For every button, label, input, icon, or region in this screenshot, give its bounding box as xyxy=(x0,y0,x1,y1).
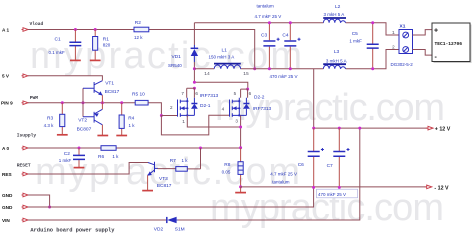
svg-text:C3: C3 xyxy=(261,33,267,39)
junction C1 top xyxy=(74,28,77,31)
svg-text:150 mkH 3 A: 150 mkH 3 A xyxy=(209,55,235,60)
junction C4 bottom xyxy=(289,67,292,70)
wire bases vertical xyxy=(82,88,84,117)
svg-text:RES: RES xyxy=(2,172,12,177)
capacitor C1 xyxy=(49,30,82,60)
svg-text:VT3: VT3 xyxy=(159,176,168,182)
svg-text:2: 2 xyxy=(392,45,395,51)
svg-text:5: 5 xyxy=(234,91,237,97)
resistor R7 1k xyxy=(170,148,201,171)
svg-text:R8: R8 xyxy=(224,162,230,168)
resistor R2 xyxy=(134,20,149,40)
svg-text:BC807: BC807 xyxy=(77,126,92,132)
junction D2-1 pins top xyxy=(193,87,196,90)
capacitor C5 1 mkF xyxy=(349,23,378,69)
ground R3 xyxy=(57,134,68,136)
svg-text:C6: C6 xyxy=(298,162,304,168)
junction C3 bottom xyxy=(268,67,271,70)
svg-text:PIN 9: PIN 9 xyxy=(1,101,13,106)
svg-text:Isupply: Isupply xyxy=(17,133,37,139)
svg-text:12 k: 12 k xyxy=(134,35,143,40)
port VIN xyxy=(2,218,28,223)
svg-text:VIN: VIN xyxy=(2,218,10,223)
svg-text:tantalum: tantalum xyxy=(272,179,290,184)
junction emitters xyxy=(101,101,104,104)
svg-text:6: 6 xyxy=(195,91,198,97)
wire top rail VD1 to L2 xyxy=(194,22,323,24)
wire +12V rail xyxy=(314,69,427,128)
svg-text:R3: R3 xyxy=(47,116,53,122)
svg-text:470 mkF 25 V: 470 mkF 25 V xyxy=(270,74,298,79)
wire D2-2 pin jog xyxy=(241,89,248,98)
junction Vload bottom rail xyxy=(253,67,256,70)
svg-text:3 mkH 5 A: 3 mkH 5 A xyxy=(326,59,347,64)
svg-text:1: 1 xyxy=(182,119,185,125)
capacitor C3 xyxy=(261,23,280,69)
junction R1 top xyxy=(94,28,97,31)
mosfet D2-2 IRF7313 xyxy=(230,95,272,117)
transistor VT1 BC817 xyxy=(83,80,120,102)
wire RESET to VT3 collector xyxy=(28,163,148,175)
wire bottom rail L3 to X1 pin2 xyxy=(346,50,399,69)
svg-text:TEC1-12706: TEC1-12706 xyxy=(435,41,463,47)
svg-text:4: 4 xyxy=(222,107,225,113)
junction drain feed xyxy=(193,81,196,84)
svg-text:SR540: SR540 xyxy=(168,63,182,68)
svg-text:Vload: Vload xyxy=(30,21,44,27)
svg-text:R2: R2 xyxy=(135,20,141,26)
svg-text:L3: L3 xyxy=(334,49,340,55)
svg-text:PWM: PWM xyxy=(30,95,39,101)
wire X1 pin1 to TEC xyxy=(413,30,433,35)
svg-text:D2-2: D2-2 xyxy=(254,95,265,101)
junction D2-2 pins top xyxy=(246,88,249,91)
svg-text:1 mkF: 1 mkF xyxy=(349,38,362,43)
svg-text:1 k: 1 k xyxy=(129,123,136,128)
inductor L2 3 mkH 5 A xyxy=(323,4,346,23)
connector X1 DG302-5-2 xyxy=(391,23,414,67)
junction R4 top xyxy=(120,101,123,104)
svg-text:5 V: 5 V xyxy=(2,74,10,79)
resistor R6 1k xyxy=(98,146,119,160)
junction VIN +12 rail xyxy=(358,127,361,130)
svg-text:470 mkF 25 V: 470 mkF 25 V xyxy=(318,192,346,197)
wire Vload A1 to R2 xyxy=(28,29,134,31)
svg-text:BC817: BC817 xyxy=(157,183,172,189)
ground R1 xyxy=(90,59,101,61)
port RES xyxy=(2,172,28,177)
ground R4 xyxy=(116,135,127,137)
svg-text:1: 1 xyxy=(392,30,395,36)
junction C7 top xyxy=(338,127,341,130)
ground C2 xyxy=(74,167,85,169)
diode VD1 SR540 xyxy=(168,23,198,83)
svg-text:IRF7313: IRF7313 xyxy=(253,106,272,112)
junction C5 top xyxy=(371,21,374,24)
svg-text:L1: L1 xyxy=(222,48,228,54)
wire X1 pin2 to TEC xyxy=(413,50,433,56)
junction gate node xyxy=(160,114,163,117)
port PIN9 xyxy=(1,101,28,106)
svg-text:D2-1: D2-1 xyxy=(200,103,211,109)
port 5V xyxy=(2,74,28,79)
svg-text:2: 2 xyxy=(170,105,173,111)
svg-text:C5: C5 xyxy=(352,31,358,37)
svg-text:4.7 mkF 25 V: 4.7 mkF 25 V xyxy=(255,14,282,19)
svg-text:L2: L2 xyxy=(335,4,341,10)
junction C7 bottom xyxy=(338,186,341,189)
svg-text:R1: R1 xyxy=(103,36,109,42)
svg-text:A 1: A 1 xyxy=(2,27,10,32)
junction C4 top xyxy=(289,21,292,24)
svg-text:BC817: BC817 xyxy=(105,89,120,95)
svg-text:R7: R7 xyxy=(170,158,176,164)
resistor R3 4.3k xyxy=(44,103,65,135)
wire VIN to VD2 xyxy=(28,219,166,221)
TEC1-12706 module xyxy=(432,23,472,63)
port A0 xyxy=(2,146,28,151)
wire PWM bus xyxy=(28,102,135,104)
svg-text:VT1: VT1 xyxy=(105,80,114,86)
wire 5V to VT1 collector xyxy=(28,76,102,81)
svg-text:7: 7 xyxy=(181,91,184,97)
capacitor C6 tantalum xyxy=(270,128,324,187)
junction source bus xyxy=(239,126,242,129)
svg-text:C1: C1 xyxy=(55,37,61,43)
capacitor C7 xyxy=(317,128,358,198)
svg-text:tantalum: tantalum xyxy=(257,4,275,9)
junction R7 column xyxy=(199,147,202,150)
svg-text:VD2: VD2 xyxy=(154,226,164,232)
wire R5 to gates xyxy=(148,103,161,116)
svg-text:C7: C7 xyxy=(327,163,333,169)
svg-text:1 k: 1 k xyxy=(182,158,189,163)
wire top rail L2 to X1 pin1 xyxy=(346,23,399,35)
svg-text:0.05: 0.05 xyxy=(222,169,231,174)
svg-text:X1: X1 xyxy=(400,23,406,29)
mosfet D2-1 IRF7313 xyxy=(178,93,219,117)
junction VD1 L1 node xyxy=(193,67,196,70)
junction C5 bottom xyxy=(371,67,374,70)
inductor L1 150 mkH 3 A xyxy=(209,48,241,69)
port GND 2 xyxy=(2,205,28,210)
svg-text:- 12 V: - 12 V xyxy=(434,185,449,191)
svg-text:R6: R6 xyxy=(98,154,104,160)
inductor L3 3 mkH 5 A xyxy=(323,49,346,69)
resistor R8 0.05 xyxy=(222,148,244,187)
resistor R5 10 xyxy=(132,92,148,105)
ground R8 xyxy=(240,187,242,192)
svg-text:4.7 mkF 25 V: 4.7 mkF 25 V xyxy=(270,172,297,177)
resistor R1 xyxy=(93,30,111,60)
wire bottom rail to L3 xyxy=(194,68,323,70)
svg-text:6: 6 xyxy=(249,91,252,97)
wire Vload R2 to corner xyxy=(149,30,255,69)
svg-text:A 0: A 0 xyxy=(2,146,10,151)
wire Isupply R6 to R8 xyxy=(116,147,241,149)
junction GND1 GND2 xyxy=(48,206,51,209)
svg-text:GND: GND xyxy=(2,205,13,210)
svg-text:R4: R4 xyxy=(128,115,134,121)
junction C6 bottom xyxy=(312,186,315,189)
junction C3 top xyxy=(268,21,271,24)
capacitor C4 xyxy=(282,23,300,69)
svg-text:IRF7313: IRF7313 xyxy=(200,93,219,99)
svg-text:15: 15 xyxy=(243,71,249,77)
wire -12V rail xyxy=(241,186,426,188)
svg-text:3: 3 xyxy=(235,118,238,124)
svg-text:+ 12 V: + 12 V xyxy=(435,127,451,133)
capacitor C2 1 mkF xyxy=(59,148,85,167)
svg-text:VT2: VT2 xyxy=(78,118,87,124)
ground C1 xyxy=(70,59,81,61)
svg-text:14: 14 xyxy=(204,71,210,77)
transistor VT2 BC807 xyxy=(77,103,103,136)
junction C6 top xyxy=(312,127,315,130)
diode VD2 S1M xyxy=(154,217,185,233)
ground VT2 xyxy=(97,135,108,137)
svg-text:C4: C4 xyxy=(282,33,288,39)
svg-text:1 mkF: 1 mkF xyxy=(59,158,72,163)
svg-text:3 mkH 5 A: 3 mkH 5 A xyxy=(324,12,345,17)
wire D2-1 pin jog xyxy=(187,88,195,98)
svg-text:RESET: RESET xyxy=(17,163,31,169)
svg-text:0.1 mkF: 0.1 mkF xyxy=(49,50,66,55)
wire Isupply A0 to R6 xyxy=(28,147,101,149)
svg-text:C2: C2 xyxy=(64,151,70,157)
svg-text:R5 10: R5 10 xyxy=(132,92,145,98)
wire VD2 to +12 rail xyxy=(178,128,360,220)
svg-text:820: 820 xyxy=(103,43,111,48)
port -12V xyxy=(425,185,449,191)
junction R8 bottom xyxy=(239,185,242,188)
junction bases xyxy=(82,101,85,104)
junction C2 top xyxy=(78,147,81,150)
wire GND1 xyxy=(28,195,50,207)
junction R3 top xyxy=(61,101,64,104)
wire source bus xyxy=(187,115,240,147)
port +12V xyxy=(426,126,451,132)
ground VT3 xyxy=(142,190,153,192)
wire drain feed D2-2 xyxy=(194,82,247,89)
wire GND2 xyxy=(28,187,314,207)
resistor R4 1k xyxy=(119,103,135,136)
svg-text:S1M: S1M xyxy=(175,226,185,232)
svg-text:4.3 k: 4.3 k xyxy=(44,123,55,128)
svg-text:Arduino board power supply: Arduino board power supply xyxy=(30,227,115,233)
svg-text:DG302-5-2: DG302-5-2 xyxy=(391,62,414,67)
svg-text:+: + xyxy=(434,27,438,34)
svg-text:1 k: 1 k xyxy=(112,154,119,159)
junction R8 top xyxy=(239,146,242,149)
svg-text:VD1: VD1 xyxy=(172,54,182,60)
wire gate bus to D2-2 xyxy=(161,115,229,135)
svg-text:GND: GND xyxy=(2,193,13,198)
port GND 1 xyxy=(2,193,28,198)
wire gate D2-1 xyxy=(161,115,177,117)
transistor VT3 BC817 xyxy=(147,162,176,190)
port A1 xyxy=(2,27,28,32)
